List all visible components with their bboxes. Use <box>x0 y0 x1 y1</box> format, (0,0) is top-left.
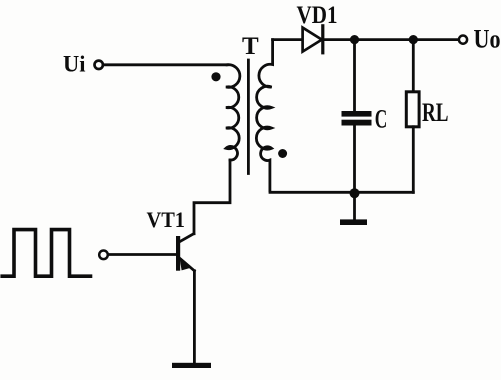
ground (output side) <box>340 219 367 225</box>
svg-text:C: C <box>375 104 388 133</box>
ground (emitter) <box>172 363 211 368</box>
wire: secondary top to diode anode <box>273 38 304 41</box>
svg-text:VD1: VD1 <box>297 2 338 29</box>
svg-text:VT1: VT1 <box>147 207 186 232</box>
polarity dot: primary <box>211 72 220 81</box>
resistor RL <box>406 92 419 127</box>
wire: emitter to ground <box>193 271 196 363</box>
wire: bottom rail (secondary return) <box>270 191 413 194</box>
wire: capacitor C to ground rail <box>353 126 356 193</box>
transistor VT1 emitter lead with arrow <box>180 259 194 271</box>
svg-text:Uo: Uo <box>474 24 501 53</box>
svg-text:RL: RL <box>422 98 449 127</box>
transformer T primary winding <box>226 65 240 160</box>
svg-text:T: T <box>242 33 259 60</box>
wire: primary bottom to collector step <box>194 160 230 234</box>
wire: diode cathode to output node <box>323 38 459 41</box>
diode VD1 triangle <box>303 28 322 52</box>
capacitor C bottom plate <box>342 120 372 126</box>
transistor VT1 base bar <box>176 236 180 271</box>
junction: load node <box>409 35 418 44</box>
wire: rail to ground <box>353 192 356 219</box>
terminal: drive input <box>99 251 108 260</box>
wire: resistor RL to bottom rail <box>412 127 415 193</box>
junction: capacitor node <box>350 35 359 44</box>
terminal Ui <box>95 61 103 69</box>
wire: Ui input to transformer primary top <box>104 63 227 66</box>
polarity dot: secondary <box>278 149 287 158</box>
transformer core <box>247 60 250 174</box>
wire: input terminal to base <box>109 253 176 256</box>
wire: output node down to capacitor C <box>353 40 356 111</box>
wire: load node down to resistor RL <box>412 40 415 92</box>
transformer T secondary winding <box>256 40 272 191</box>
terminal Uo <box>459 36 467 44</box>
square wave drive symbol <box>2 230 90 277</box>
junction: ground node on rail <box>350 188 360 198</box>
capacitor C top plate <box>342 111 372 117</box>
diode VD1 cathode bar <box>321 26 324 53</box>
transistor VT1 collector lead <box>180 234 194 242</box>
svg-text:Ui: Ui <box>63 52 86 77</box>
